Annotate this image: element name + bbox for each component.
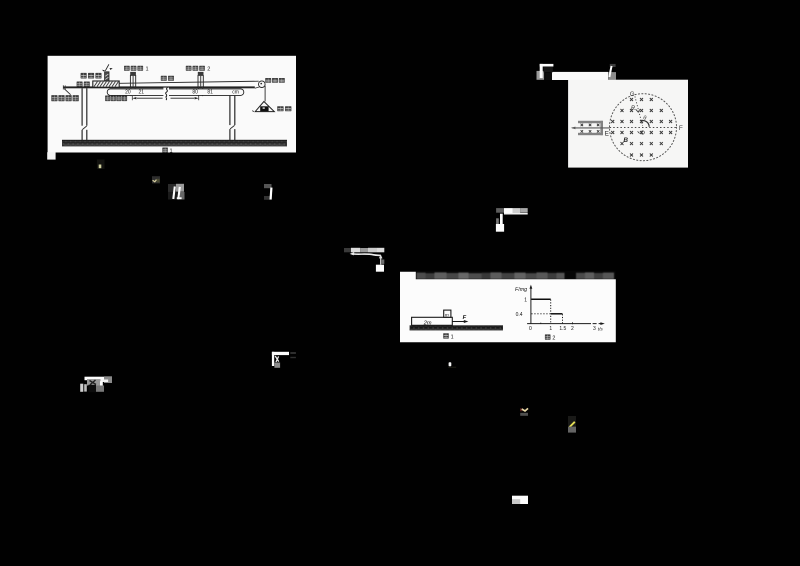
svg-text:t/s: t/s [598,326,604,331]
graph level-0.4 segment [551,313,563,315]
fragment: gamma shape (left-middle) [272,352,296,368]
light-blocking strip (挡光条) on slider [105,72,109,81]
string down from pulley [264,86,266,102]
photogate 2 post [198,75,203,86]
label 光电门2 [186,66,192,71]
dotted circle boundary of field region [610,94,677,161]
graph level-1 segment [531,298,550,300]
photogate 2 legs through ruler [199,87,203,96]
fragment: arrow streak (middle) [344,248,384,272]
string (细线) from slider to pulley [119,81,259,83]
svg-text:20: 20 [125,90,131,96]
air track horizontal beam [63,86,255,88]
svg-text:0: 0 [529,326,532,332]
fragment: white block bottom middle [512,496,528,504]
force F arrow [452,321,466,323]
svg-text:81: 81 [207,90,213,96]
ground hatched band [62,140,287,146]
dotted horizontal at 0.4 [531,313,550,315]
label 细线 [161,76,167,81]
svg-text:F/mg: F/mg [515,287,527,293]
svg-text:1: 1 [170,149,173,155]
glyph fragment left (inverted text remnant) [537,64,554,80]
svg-text:R: R [631,106,636,112]
svg-text:F: F [463,315,467,321]
fragment: white "]" on grey blocks [264,184,272,200]
fragment: dark square with cream check [152,176,160,183]
small ticks on x axis [541,322,573,324]
svg-text:B: B [623,137,628,144]
caption 图1 of panel 3 [443,333,449,338]
svg-text:3: 3 [593,326,596,332]
graph x axis with arrow and end dashes [527,323,591,325]
dotted vertical at t=1 [550,300,552,324]
arrowhead chevron on radius [636,109,640,112]
photogate 1 post [130,75,135,86]
fixed pulley (定滑轮) [259,81,266,88]
fragment: complex blob (bottom left) [80,376,112,392]
dotted vertical at t=1.5 [562,314,564,323]
svg-text:21: 21 [139,90,145,96]
label 气垫导轨 [51,95,57,101]
angle arc theta at O [641,121,649,127]
svg-text:2: 2 [552,336,555,342]
label 挡光条 [81,73,87,79]
label O with tick [638,131,640,133]
svg-text:2: 2 [571,326,574,332]
svg-text:E: E [605,131,609,138]
svg-text:1: 1 [524,297,527,303]
caption 图2 [545,334,551,339]
label 钩码 [277,106,283,111]
big block 2m [412,317,453,325]
leader line for air-track label [64,89,70,95]
label 滑块 [77,82,83,87]
svg-text:80: 80 [192,90,198,96]
label 定滑轮 [265,78,271,83]
slider block (滑块) with hatching [93,81,119,87]
fragment: white "11" on grey blocks [168,184,185,200]
fragment: dark block with yellow slash [568,416,576,427]
svg-text:1: 1 [549,326,552,332]
svg-text:G: G [630,91,635,98]
svg-text:cm: cm [232,90,239,96]
ground hatched band (figure 图1 of panel 3) [410,325,503,330]
panel: air-track experiment figure (图1) white background [48,56,296,153]
svg-text:m: m [445,312,449,317]
svg-text:1.5: 1.5 [559,326,566,332]
fragment: cream arrow + grey block [520,408,522,411]
svg-text:2m: 2m [423,321,432,327]
x marks inside plates [581,124,600,133]
fragment: small white pill [449,362,452,366]
svg-text:1: 1 [451,334,454,340]
dashed horizontal diameter E-F [610,127,678,129]
white strip fragment above circle panel [552,72,608,80]
panel 1 bottom-left white tab [47,152,55,159]
label 导轨标尺 [105,96,110,102]
left table leg (double line with break) [82,88,87,140]
fragment: L-shape with streak (top middle-right) [496,208,528,232]
dimension line between photogates with arrows [132,96,198,100]
ruler strip (导轨标尺) with rounded ends [107,89,244,96]
track left end cap ticks [63,85,65,89]
label 光电门1 [124,66,130,71]
fragment: yellow tick in dark square (left) [97,160,105,169]
redacted grey text band [416,271,616,280]
svg-text:1: 1 [146,67,149,73]
glyph fragment right (inverted text remnant) [608,64,616,80]
panel: blocks and F/mg graph white background [400,272,616,343]
accelerating plates bracket [578,121,603,135]
beam axis line with left arrow [572,127,609,129]
dashed radius O to G [635,96,643,126]
small block m on top [444,310,451,317]
weight hanger triangle (钩码) [255,102,274,112]
svg-text:0.4: 0.4 [516,312,523,318]
photogate 1 legs through ruler [131,87,135,96]
svg-text:F: F [679,125,683,132]
right table leg (double line with break) [230,96,235,141]
panel: circular B-field region figure white background [568,80,688,168]
svg-text:2: 2 [207,67,210,73]
B-field x symbols grid [611,98,672,157]
ruler break squiggle [163,88,169,97]
graph 图2: y axis [530,286,532,323]
svg-text:O: O [641,131,646,137]
strip width dimension mark (slanted tick with arrows) [105,64,109,71]
label 图1 caption [162,148,168,153]
